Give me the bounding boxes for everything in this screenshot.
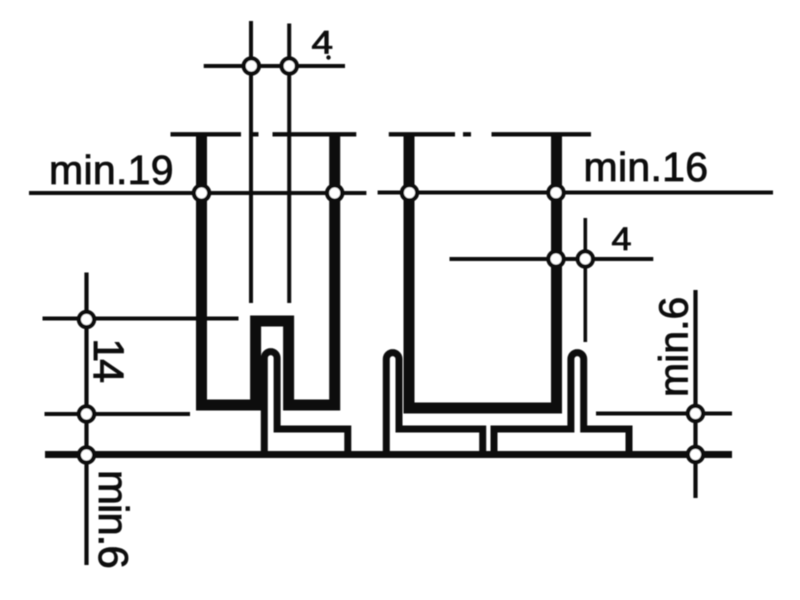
dim node min16 left (402, 185, 417, 200)
svg-text:min.19: min.19 (49, 147, 174, 193)
dim node min16 right (548, 185, 563, 200)
dim node right col bottom (688, 447, 703, 462)
profile U-channel right (thick) (409, 134, 557, 408)
svg-text:4: 4 (312, 25, 334, 61)
svg-text:4: 4 (612, 221, 632, 257)
extension line 14 bottom (45, 412, 191, 416)
track profile left (thin hairpin + foot) (264, 352, 348, 456)
stray dot after top 4 (326, 55, 330, 59)
extension line 14 top (43, 316, 239, 320)
dim node left col mid (79, 406, 94, 421)
dim node right-4 left (548, 251, 563, 266)
dim node min19 left (194, 185, 209, 200)
dim node left col top (79, 312, 94, 327)
dim node right col top (688, 406, 703, 421)
dimension line vertical left (14 / min.6) (84, 273, 88, 566)
extension line min.6 right top (596, 411, 732, 415)
svg-text:min.16: min.16 (584, 144, 709, 190)
dim node top-4 left (244, 58, 259, 73)
dimension line min.19 (29, 191, 366, 195)
dimension line 4 right (450, 257, 654, 261)
svg-text:min.6: min.6 (651, 297, 697, 397)
break line top left (171, 132, 357, 136)
svg-text:14: 14 (84, 338, 132, 382)
track profile right (foot + hairpin + foot) (494, 353, 629, 456)
extension line left of top 4 (249, 21, 253, 303)
track profile middle (hairpin + foot, left of right channel) (386, 353, 482, 456)
dim node left col bottom (79, 447, 94, 462)
break line top right (dash-dot) (389, 132, 591, 136)
dimension line 4 top (204, 64, 345, 68)
profile U-channel left (thick, with center tongue) (202, 134, 335, 405)
extension line right of top 4 (287, 24, 291, 304)
floor base line (45, 451, 732, 458)
extension line of right 4 (583, 218, 587, 342)
dim node right-4 right (578, 251, 593, 266)
dimension line min.16 (378, 190, 773, 194)
dimension line vertical right (min.6) (693, 290, 697, 498)
svg-text:min.6: min.6 (90, 470, 137, 568)
dim node top-4 right (282, 58, 297, 73)
dim node min19 right (327, 185, 342, 200)
